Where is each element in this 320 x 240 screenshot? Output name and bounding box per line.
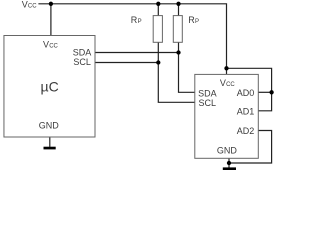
svg-text:P: P: [138, 19, 142, 25]
uC box: [4, 36, 95, 138]
junction dot VCC/slave: [224, 66, 228, 70]
svg-text:SDA: SDA: [73, 47, 92, 57]
junction dot RP2/SDA: [176, 50, 180, 54]
junction dot RP1 top: [156, 2, 160, 6]
wire VCC branch to AD0 AD1: [227, 68, 272, 111]
wire RP1 top stub: [157, 4, 159, 16]
svg-text:AD0: AD0: [237, 88, 255, 98]
wire RP2 top stub: [178, 4, 180, 16]
junction dot AD0: [269, 90, 273, 94]
junction dot AD2/ground: [227, 161, 231, 165]
wire SCL from uC to RP1: [95, 62, 158, 64]
resistor RP2 body: [173, 16, 182, 43]
wire RP1 bottom to slave SCL: [158, 42, 195, 102]
ground stub uC: [49, 137, 51, 147]
svg-text:P: P: [195, 19, 199, 25]
svg-text:SDA: SDA: [198, 89, 217, 99]
resistor RP1 body: [153, 16, 162, 43]
wire VCC drop to uC: [50, 4, 52, 36]
wire SDA from uC to RP2: [95, 52, 179, 54]
slave box: [195, 74, 258, 158]
svg-text:CC: CC: [28, 4, 37, 10]
junction dot RP1/SCL: [156, 60, 160, 64]
wire VCC top rail: [38, 4, 226, 75]
svg-text:SCL: SCL: [73, 57, 91, 67]
wire AD2 to ground: [229, 131, 272, 164]
svg-text:GND: GND: [217, 146, 238, 156]
wire RP2 bottom to slave SDA: [179, 42, 195, 92]
svg-text:µC: µC: [41, 78, 59, 94]
ground stub slave: [228, 158, 230, 168]
wire AD0 stub: [258, 91, 271, 93]
svg-text:AD2: AD2: [237, 126, 255, 136]
svg-text:GND: GND: [39, 121, 60, 131]
junction dot VCC/uC: [49, 2, 53, 6]
svg-text:V: V: [220, 78, 226, 88]
ground bar uC: [44, 147, 56, 150]
junction dot RP2 top: [176, 2, 180, 6]
svg-text:CC: CC: [226, 82, 235, 88]
svg-text:AD1: AD1: [237, 107, 255, 117]
svg-text:CC: CC: [49, 44, 58, 50]
svg-text:V: V: [22, 0, 28, 10]
svg-text:SCL: SCL: [199, 98, 217, 108]
ground bar slave: [223, 167, 236, 170]
svg-text:V: V: [43, 40, 49, 50]
